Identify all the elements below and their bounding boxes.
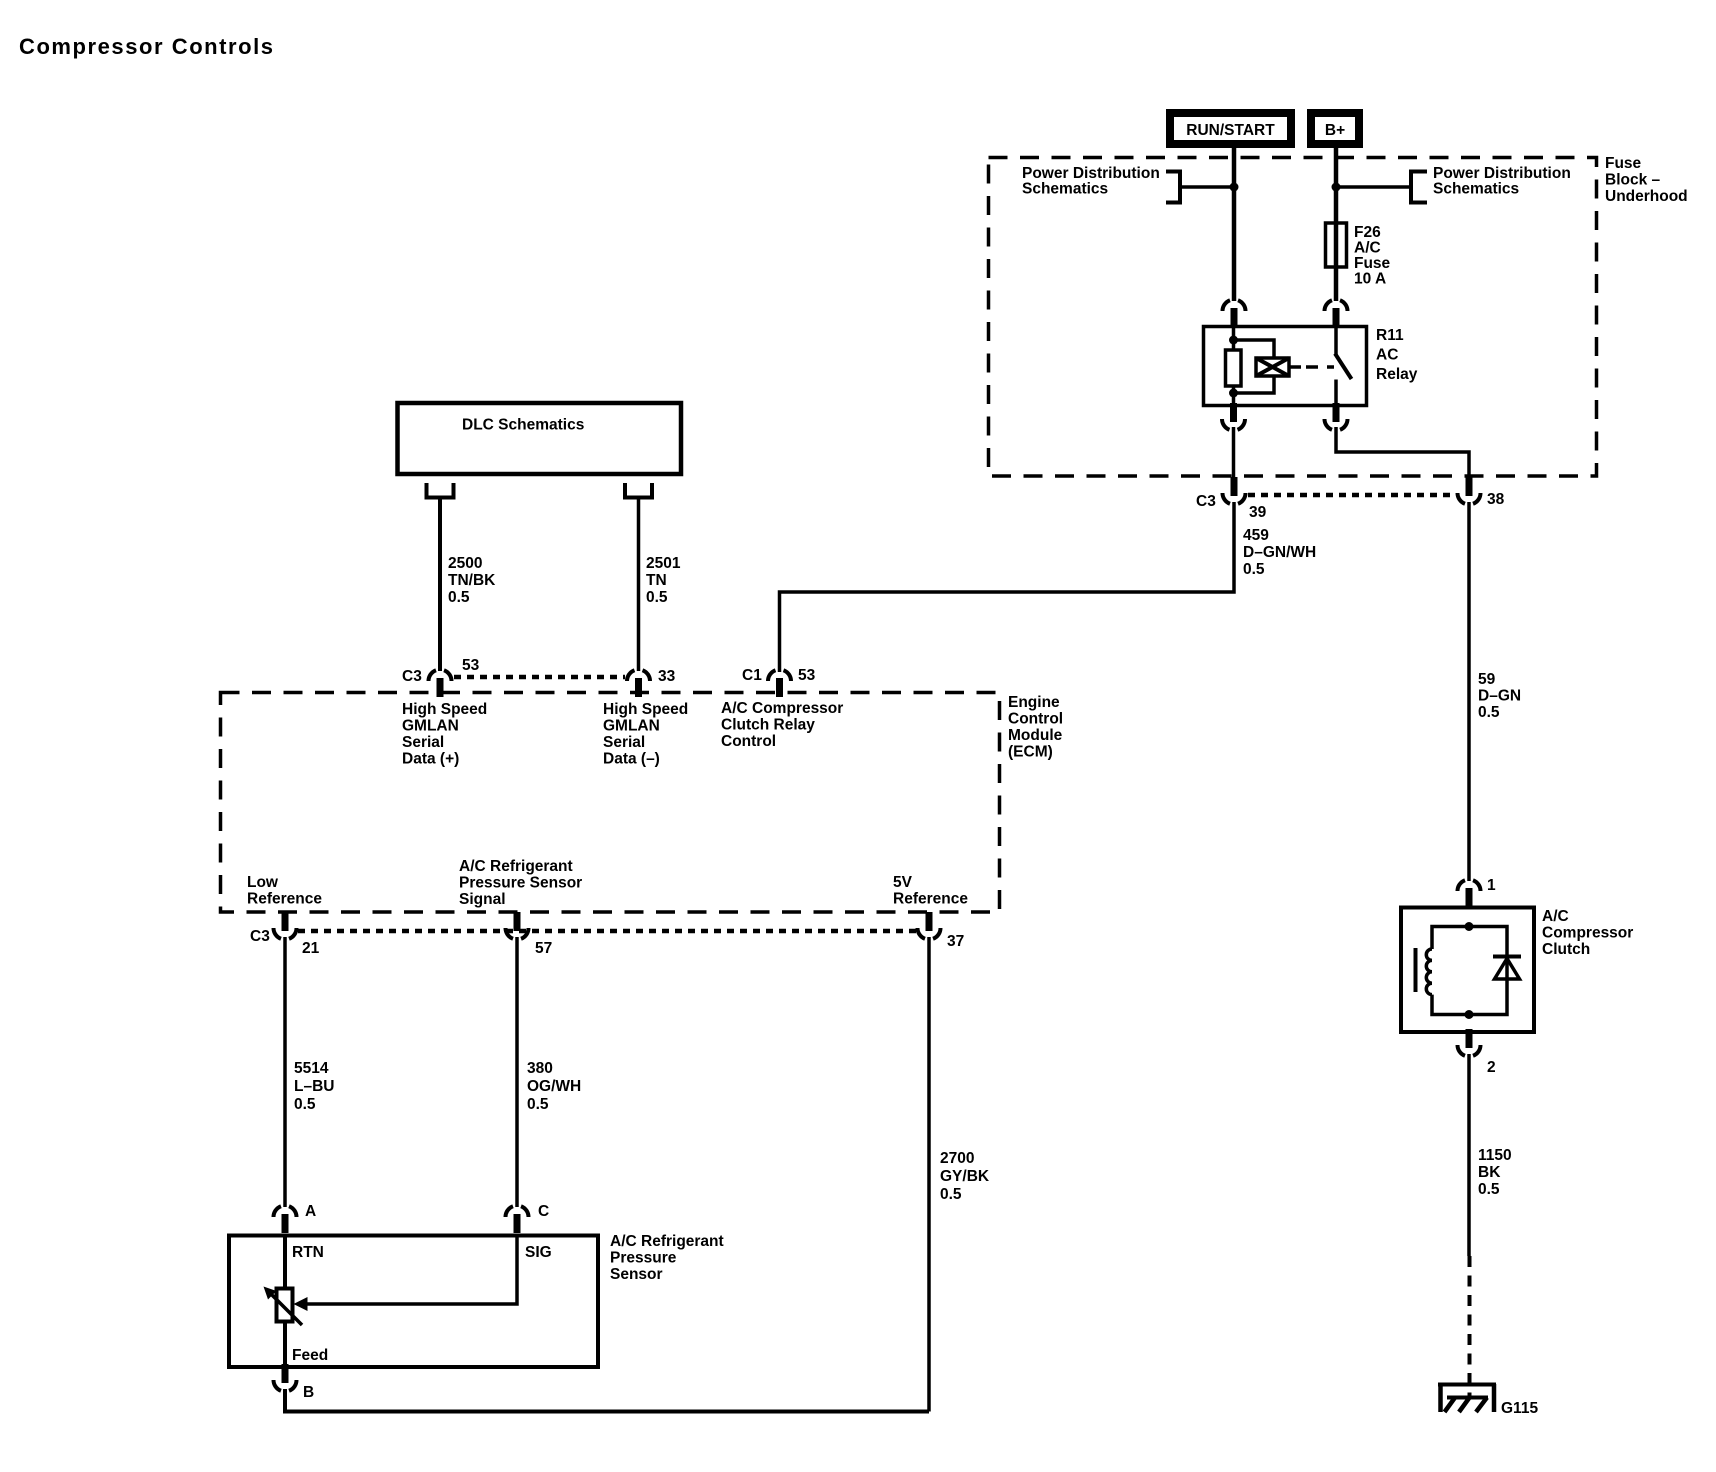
- svg-text:Serial: Serial: [402, 734, 444, 751]
- label Fuse Block - Underhood: [1605, 155, 1688, 205]
- svg-text:Schematics: Schematics: [1433, 181, 1519, 198]
- ECM dashed boundary: [221, 693, 1000, 913]
- svg-text:Engine: Engine: [1008, 694, 1060, 711]
- svg-text:0.5: 0.5: [527, 1096, 549, 1113]
- svg-text:10 A: 10 A: [1354, 271, 1386, 288]
- svg-text:C: C: [538, 1203, 549, 1220]
- svg-text:D–GN/WH: D–GN/WH: [1243, 544, 1316, 561]
- connector ECM pin 57: [506, 912, 529, 939]
- relay R11 box: [1204, 327, 1367, 406]
- svg-text:39: 39: [1249, 504, 1267, 521]
- svg-text:RTN: RTN: [292, 1244, 324, 1261]
- svg-text:2500: 2500: [448, 555, 482, 572]
- svg-text:37: 37: [947, 933, 964, 950]
- svg-text:TN: TN: [646, 572, 667, 589]
- svg-text:Data (+): Data (+): [402, 751, 459, 768]
- wire clutch loop left: [1432, 927, 1469, 950]
- svg-text:0.5: 0.5: [1478, 704, 1500, 721]
- svg-text:A/C Refrigerant: A/C Refrigerant: [610, 1233, 724, 1250]
- resistor relay coil suppression: [1226, 350, 1242, 386]
- A/C refrigerant pressure sensor box: [229, 1236, 598, 1368]
- value label 2700 GY/BK 0.5: [940, 1150, 990, 1203]
- net label A/C Refrigerant Pressure Sensor Signal: [459, 858, 582, 908]
- connector ECM pin 37: [918, 912, 941, 939]
- relay switch blade: [1335, 354, 1352, 380]
- node RUN/START: [1170, 113, 1291, 144]
- DLC terminal bracket right: [625, 483, 652, 498]
- svg-text:C3: C3: [402, 668, 422, 685]
- junction clutch bottom: [1465, 1010, 1474, 1019]
- connector C3 pin 39: [1223, 477, 1246, 504]
- wire 1150 BK: [1467, 1054, 1471, 1256]
- svg-text:1150: 1150: [1478, 1147, 1512, 1164]
- svg-text:OG/WH: OG/WH: [527, 1078, 581, 1095]
- value label 59 D-GN 0.5: [1478, 671, 1521, 721]
- svg-text:TN/BK: TN/BK: [448, 572, 496, 589]
- wire clutch loop right: [1469, 927, 1507, 1015]
- svg-text:C3: C3: [1196, 493, 1216, 510]
- junction clutch top: [1465, 922, 1474, 931]
- wire RTN lead: [283, 1235, 287, 1289]
- svg-text:0.5: 0.5: [294, 1096, 316, 1113]
- label Power Distribution Schematics (left): [1022, 165, 1160, 198]
- svg-text:Module: Module: [1008, 727, 1063, 744]
- svg-text:Pressure Sensor: Pressure Sensor: [459, 875, 582, 892]
- svg-text:Control: Control: [1008, 711, 1063, 728]
- svg-text:Data (–): Data (–): [603, 751, 660, 768]
- value label 2501 TN 0.5: [646, 555, 681, 606]
- connector pin 38: [1458, 477, 1481, 504]
- wire B+ to bracket: [1336, 185, 1411, 189]
- DLC terminal bracket left: [427, 483, 454, 498]
- svg-text:0.5: 0.5: [1478, 1181, 1500, 1198]
- wire Feed lead: [283, 1322, 287, 1368]
- svg-text:C1: C1: [742, 667, 762, 684]
- ground G115: [1438, 1384, 1496, 1412]
- wire dashed run to ground: [1468, 1256, 1472, 1398]
- label F26 A/C Fuse 10 A: [1354, 224, 1391, 288]
- svg-text:Reference: Reference: [893, 891, 968, 908]
- net label 5V Reference: [893, 874, 968, 908]
- wire 2500 TN/BK: [438, 500, 442, 672]
- label A/C Compressor Clutch: [1542, 908, 1633, 958]
- svg-text:Schematics: Schematics: [1022, 181, 1108, 198]
- svg-text:R11: R11: [1376, 327, 1404, 344]
- svg-text:2700: 2700: [940, 1150, 974, 1167]
- svg-text:Low: Low: [247, 874, 279, 891]
- svg-text:High Speed: High Speed: [402, 701, 487, 718]
- svg-text:Clutch: Clutch: [1542, 941, 1590, 958]
- connector ECM C1 pin 53: [768, 670, 791, 697]
- connector relay pin bottom-right: [1325, 403, 1348, 430]
- wire 59 D-GN from pin 38 to clutch pin 1: [1467, 502, 1471, 881]
- harness connector C3 dotted link (bottom): [298, 929, 917, 934]
- svg-text:53: 53: [798, 667, 816, 684]
- svg-text:Fuse: Fuse: [1605, 155, 1642, 172]
- connector clutch pin 1: [1458, 880, 1481, 907]
- value label 5514 L-BU 0.5: [294, 1060, 334, 1113]
- svg-text:BK: BK: [1478, 1164, 1501, 1181]
- svg-text:Underhood: Underhood: [1605, 188, 1688, 205]
- wire clutch loop left lower: [1432, 995, 1469, 1015]
- value label 2500 TN/BK 0.5: [448, 555, 496, 606]
- connector relay pin bottom-left: [1222, 403, 1245, 430]
- fuse block underhood dashed boundary: [989, 158, 1597, 477]
- harness connector C3 dotted link: [1248, 493, 1455, 498]
- off-page bracket (left power distribution): [1166, 172, 1180, 203]
- relay coil solenoid symbol: [1256, 358, 1289, 376]
- wire RUN/START down to relay: [1232, 148, 1237, 301]
- wire sensor B to ECM 37 (ground return run): [285, 1389, 929, 1412]
- svg-text:0.5: 0.5: [940, 1186, 962, 1203]
- svg-text:L–BU: L–BU: [294, 1078, 334, 1095]
- junction coil bottom: [1229, 389, 1238, 398]
- mechanical link from coil to switch: [1289, 365, 1334, 369]
- svg-text:SIG: SIG: [525, 1244, 552, 1261]
- connector clutch pin 2: [1458, 1029, 1481, 1056]
- svg-text:57: 57: [535, 940, 552, 957]
- wire SIG lead: [307, 1235, 517, 1304]
- svg-text:Signal: Signal: [459, 891, 506, 908]
- variable resistor sensor element: [277, 1289, 293, 1322]
- svg-text:459: 459: [1243, 527, 1269, 544]
- node B+: [1311, 113, 1359, 144]
- wire 459 D-GN/WH from pin 39 to ECM C1 53: [780, 502, 1235, 672]
- connector relay pin top-right: [1325, 300, 1348, 327]
- connector sensor pin B: [274, 1364, 297, 1391]
- svg-text:2: 2: [1487, 1059, 1496, 1076]
- svg-text:B+: B+: [1325, 122, 1345, 139]
- harness connector C3 dotted link (top): [454, 675, 625, 680]
- svg-text:Compressor Controls: Compressor Controls: [19, 34, 275, 59]
- label A/C Refrigerant Pressure Sensor: [610, 1233, 724, 1283]
- svg-text:Reference: Reference: [247, 891, 322, 908]
- svg-text:GY/BK: GY/BK: [940, 1168, 990, 1185]
- svg-text:0.5: 0.5: [646, 589, 668, 606]
- svg-text:5514: 5514: [294, 1060, 329, 1077]
- wiper arrowhead: [294, 1297, 308, 1311]
- fuse F26: [1326, 223, 1347, 267]
- svg-text:DLC Schematics: DLC Schematics: [462, 417, 584, 434]
- svg-text:A/C: A/C: [1542, 908, 1569, 925]
- svg-text:A/C Compressor: A/C Compressor: [721, 700, 843, 717]
- svg-text:GMLAN: GMLAN: [402, 718, 459, 735]
- wire B+ down through fuse to relay: [1334, 148, 1339, 301]
- svg-text:Control: Control: [721, 733, 776, 750]
- svg-text:A/C Refrigerant: A/C Refrigerant: [459, 858, 573, 875]
- svg-text:Power Distribution: Power Distribution: [1022, 165, 1160, 182]
- junction RUN/START feed: [1230, 183, 1239, 192]
- svg-text:B: B: [303, 1384, 314, 1401]
- svg-text:33: 33: [658, 668, 676, 685]
- wire relay coil bottom lead: [1232, 386, 1236, 406]
- svg-text:C3: C3: [250, 928, 270, 945]
- connector relay pin top-left: [1223, 300, 1246, 327]
- diode clamp triangle: [1495, 959, 1520, 980]
- svg-text:38: 38: [1487, 491, 1505, 508]
- junction coil top: [1229, 336, 1238, 345]
- wire coil branch loop: [1234, 340, 1275, 393]
- svg-text:G115: G115: [1501, 1400, 1538, 1417]
- off-page bracket (right power distribution): [1411, 172, 1427, 203]
- svg-text:Compressor: Compressor: [1542, 925, 1633, 942]
- wire bracket to RUN/START feed: [1180, 185, 1234, 189]
- wire 2501 TN: [637, 500, 641, 672]
- svg-text:A: A: [305, 1203, 316, 1220]
- junction B+ feed: [1332, 183, 1341, 192]
- svg-text:0.5: 0.5: [1243, 561, 1265, 578]
- wire 5514 L-BU low reference: [283, 937, 287, 1207]
- net label A/C Compressor Clutch Relay Control: [721, 700, 843, 750]
- svg-text:59: 59: [1478, 671, 1496, 688]
- svg-text:GMLAN: GMLAN: [603, 718, 660, 735]
- A/C compressor clutch box: [1401, 908, 1534, 1033]
- relay switch fixed contact bottom: [1334, 380, 1338, 407]
- label R11 AC Relay: [1376, 327, 1418, 383]
- connector ECM C3 pin 53: [429, 670, 452, 697]
- svg-text:Clutch Relay: Clutch Relay: [721, 717, 815, 734]
- wire relay switched out to pin 38: [1336, 427, 1469, 480]
- inductor clutch coil: [1426, 949, 1432, 995]
- svg-text:21: 21: [302, 940, 320, 957]
- svg-text:53: 53: [462, 657, 480, 674]
- connector sensor pin A: [274, 1206, 297, 1233]
- relay switch fixed contact top: [1334, 326, 1338, 355]
- svg-text:D–GN: D–GN: [1478, 688, 1521, 705]
- connector ECM pin 33: [627, 670, 650, 697]
- label Engine Control Module (ECM): [1008, 694, 1063, 761]
- wire relay control out: [1232, 427, 1236, 480]
- svg-text:Serial: Serial: [603, 734, 645, 751]
- value label 380 OG/WH 0.5: [527, 1060, 581, 1113]
- variable resistor arrow: [264, 1287, 303, 1326]
- svg-text:Fuse: Fuse: [1354, 255, 1391, 272]
- connector ECM C3 pin 21: [274, 912, 297, 939]
- wire 380 OG/WH signal: [515, 937, 519, 1207]
- svg-text:Power Distribution: Power Distribution: [1433, 165, 1571, 182]
- svg-text:Block –: Block –: [1605, 172, 1661, 189]
- svg-text:0.5: 0.5: [448, 589, 470, 606]
- svg-text:AC: AC: [1376, 347, 1398, 364]
- svg-text:F26: F26: [1354, 224, 1381, 241]
- wire relay coil top lead: [1232, 326, 1236, 351]
- svg-text:Sensor: Sensor: [610, 1266, 663, 1283]
- svg-text:5V: 5V: [893, 874, 913, 891]
- svg-text:2501: 2501: [646, 555, 681, 572]
- svg-text:(ECM): (ECM): [1008, 744, 1053, 761]
- DLC Schematics box: [398, 403, 682, 474]
- value label 1150 BK 0.5: [1478, 1147, 1512, 1198]
- diode clamp cathode bar: [1493, 955, 1521, 959]
- svg-text:A/C: A/C: [1354, 240, 1381, 257]
- wire 2700 GY/BK 5V reference: [927, 937, 931, 1412]
- net label High Speed GMLAN Serial Data (+): [402, 701, 487, 768]
- connector sensor pin C: [506, 1206, 529, 1233]
- svg-text:Pressure: Pressure: [610, 1250, 677, 1267]
- svg-text:380: 380: [527, 1060, 553, 1077]
- svg-text:RUN/START: RUN/START: [1186, 122, 1275, 139]
- svg-text:Relay: Relay: [1376, 366, 1418, 383]
- svg-text:1: 1: [1487, 877, 1496, 894]
- value label 459 D-GN/WH 0.5: [1243, 527, 1316, 578]
- svg-text:Feed: Feed: [292, 1347, 328, 1364]
- net label High Speed GMLAN Serial Data (-): [603, 701, 688, 768]
- net label Low Reference: [247, 874, 322, 908]
- svg-text:High Speed: High Speed: [603, 701, 688, 718]
- coil core bar: [1414, 948, 1418, 992]
- label Power Distribution Schematics (right): [1433, 165, 1571, 198]
